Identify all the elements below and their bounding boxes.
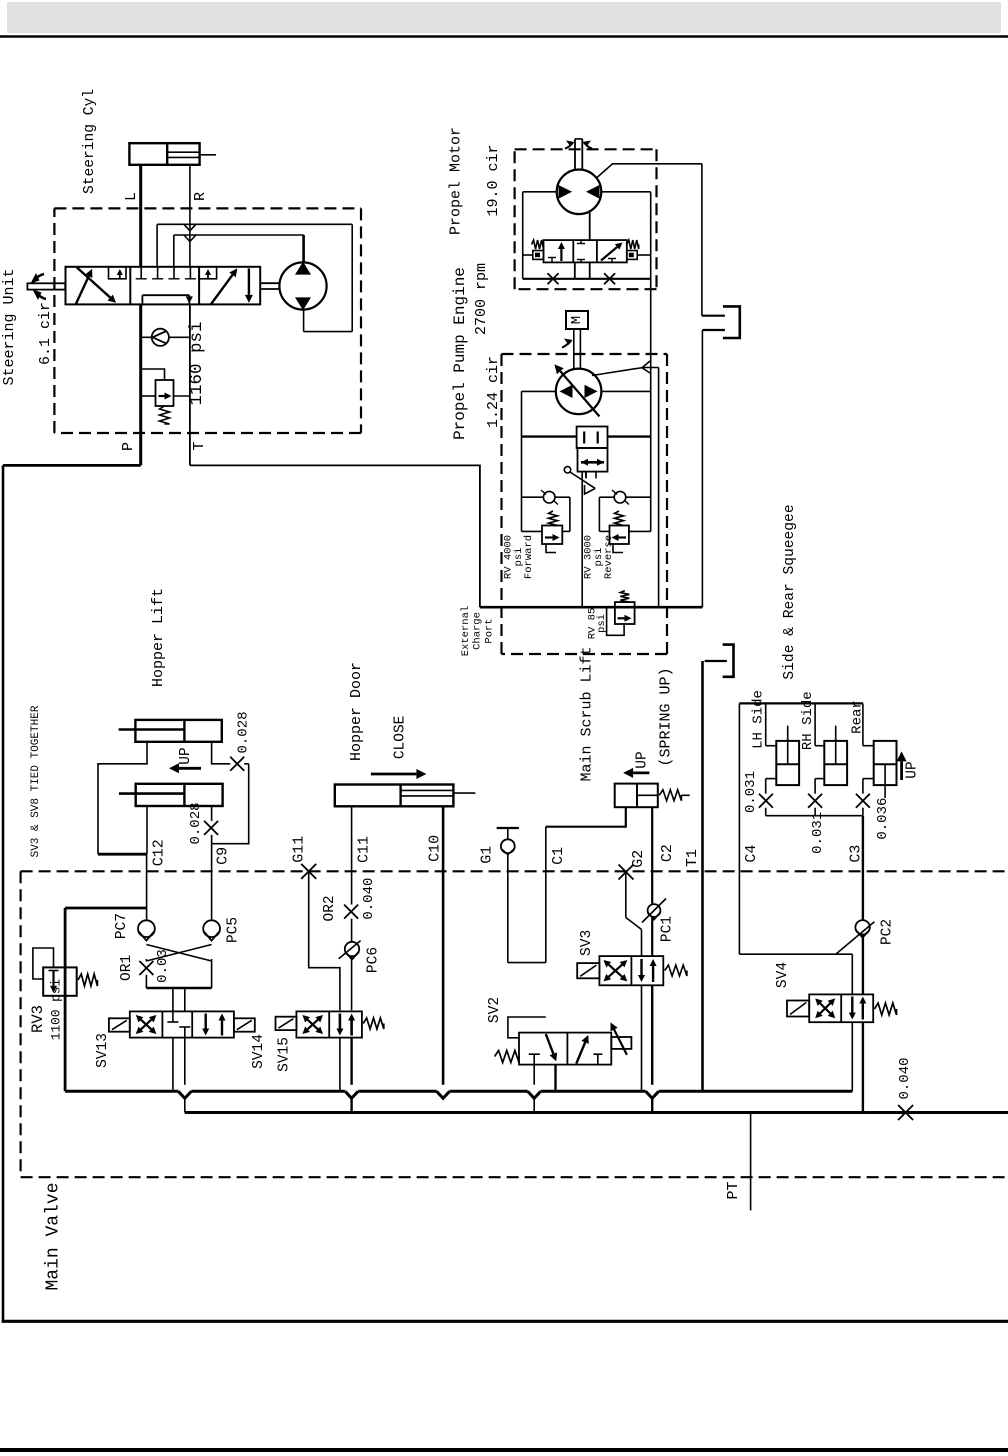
page bottom rule bbox=[0, 1448, 1008, 1452]
svg-text:M: M bbox=[569, 316, 585, 324]
svg-text:Port: Port bbox=[484, 618, 496, 643]
svg-text:C9: C9 bbox=[215, 847, 232, 865]
svg-text:L: L bbox=[123, 192, 140, 201]
svg-text:Propel Pump Engine: Propel Pump Engine bbox=[451, 267, 469, 440]
svg-text:T: T bbox=[191, 441, 208, 450]
wire C2 through PC1 bbox=[651, 917, 653, 956]
valve SV4 bbox=[809, 994, 873, 1022]
svg-text:PC1: PC1 bbox=[660, 916, 676, 942]
wire T1 bbox=[701, 661, 704, 1091]
wire hopper lower right port bbox=[211, 806, 213, 821]
svg-text:Main Valve: Main Valve bbox=[44, 1182, 64, 1290]
wire motor loop bottom bbox=[523, 278, 651, 280]
page header bar bbox=[7, 2, 1001, 33]
header rule bbox=[0, 35, 1008, 38]
wire T below valve bbox=[189, 304, 191, 465]
svg-text:C1: C1 bbox=[550, 847, 567, 865]
check valve PC7 bbox=[146, 919, 148, 921]
coupler motor case bbox=[702, 315, 725, 317]
wire P to boundary bbox=[3, 464, 141, 467]
svg-text:PC7: PC7 bbox=[114, 913, 130, 939]
svg-text:C12: C12 bbox=[151, 839, 168, 866]
wire C4 rail bbox=[739, 702, 863, 704]
check valve steering bbox=[141, 336, 152, 338]
propel pump dashed box bbox=[502, 353, 668, 355]
svg-text:Steering Cyl: Steering Cyl bbox=[82, 89, 98, 194]
steering wheel shaft bbox=[27, 283, 65, 289]
wire hopper left loop bbox=[98, 742, 147, 854]
plug X left bbox=[548, 273, 559, 284]
wire coupler to charge line bbox=[701, 330, 703, 607]
system boundary bottom edge bbox=[2, 1320, 1008, 1323]
spring SV4 bbox=[874, 1003, 896, 1015]
main valve dashed box bbox=[21, 870, 1008, 872]
wire C2 bbox=[651, 807, 653, 903]
svg-text:1.24 cir: 1.24 cir bbox=[485, 356, 502, 428]
wire motor case drain bbox=[597, 164, 702, 178]
wire C10 bbox=[442, 806, 445, 1085]
wire motor valve ports bbox=[574, 262, 576, 278]
plug X right bbox=[604, 273, 615, 284]
wire SV4 left port down bbox=[851, 1022, 853, 1091]
wire R line bbox=[189, 165, 191, 267]
steering cylinder bbox=[129, 143, 199, 165]
wire G1 line bbox=[507, 853, 509, 963]
valve SV13 SV14 bbox=[130, 1011, 234, 1037]
svg-text:C3: C3 bbox=[847, 845, 864, 863]
wire gerotor top loop bbox=[302, 235, 305, 262]
spring SV2 bbox=[495, 1051, 520, 1063]
svg-text:SV14: SV14 bbox=[251, 1034, 267, 1069]
svg-text:C2: C2 bbox=[659, 844, 676, 862]
wire pump right column bbox=[650, 391, 652, 531]
relief valve RV forward bbox=[542, 526, 562, 545]
coupler T1 bbox=[723, 645, 734, 677]
wire C9 bbox=[211, 844, 213, 921]
wire below SV2 bbox=[533, 1065, 535, 1085]
wire C11 bbox=[351, 806, 353, 904]
wire hopper lower left port bbox=[146, 806, 148, 854]
svg-text:PT: PT bbox=[725, 1181, 742, 1199]
wire pump center column bbox=[581, 472, 583, 608]
relief valve 1160 psi bbox=[156, 380, 174, 406]
svg-text:C11: C11 bbox=[355, 836, 372, 863]
gauge port G11 bbox=[301, 864, 316, 879]
svg-text:0.031: 0.031 bbox=[743, 771, 759, 813]
svg-text:OR1: OR1 bbox=[119, 955, 135, 981]
gauge port G2 bbox=[619, 865, 634, 880]
wire motor loop left bbox=[523, 191, 557, 193]
valve right section bbox=[199, 267, 217, 279]
solenoid SV15 bbox=[276, 1017, 297, 1030]
wire below SV13 bbox=[172, 1038, 174, 1092]
svg-text:19.0 cir: 19.0 cir bbox=[485, 144, 502, 216]
pump shaft bbox=[573, 329, 575, 370]
pump variable arrow bbox=[560, 371, 599, 416]
svg-text:Reverse: Reverse bbox=[603, 535, 615, 579]
svg-text:Hopper Door: Hopper Door bbox=[348, 662, 365, 761]
solenoid SV3 bbox=[577, 963, 599, 978]
wire pump ports bbox=[522, 390, 556, 392]
propel pump bbox=[556, 369, 602, 415]
svg-text:R: R bbox=[192, 192, 209, 201]
svg-text:0.03: 0.03 bbox=[155, 949, 171, 983]
svg-text:Hopper Lift: Hopper Lift bbox=[150, 588, 167, 687]
svg-text:G1: G1 bbox=[479, 846, 496, 864]
wire valve to gerotor bbox=[260, 282, 279, 284]
wire rear orifice branch bbox=[862, 779, 864, 794]
wire C1 jog to SV2 bbox=[508, 1017, 546, 1038]
squeegee cylinder RH bbox=[814, 703, 816, 745]
valve SV3 bbox=[599, 956, 663, 985]
wire PT bbox=[750, 1113, 752, 1211]
svg-text:LH Side: LH Side bbox=[751, 690, 767, 749]
charge check left bbox=[522, 496, 544, 498]
svg-text:Propel Motor: Propel Motor bbox=[448, 127, 465, 235]
propel motor dashed box bbox=[515, 148, 657, 150]
orifice 0.028 lower bbox=[204, 821, 218, 835]
tank manifold upper bbox=[65, 1090, 178, 1093]
valve SV15 bbox=[296, 1011, 362, 1037]
wire L line bbox=[139, 165, 142, 267]
check valve PC1 bbox=[648, 904, 661, 917]
svg-text:RV3: RV3 bbox=[29, 1005, 47, 1033]
svg-text:6.1 cir: 6.1 cir bbox=[37, 302, 54, 365]
orifice 0.028 upper bbox=[230, 757, 244, 771]
wire pump left column bbox=[521, 391, 523, 531]
svg-text:UP: UP bbox=[635, 751, 651, 768]
svg-text:C4: C4 bbox=[743, 845, 760, 863]
valve SV2 bbox=[519, 1033, 611, 1065]
wire hopper right loop bbox=[212, 742, 231, 764]
relief valve RV 85 bbox=[615, 602, 635, 624]
wire RH orifice branch bbox=[814, 779, 816, 794]
wire motor right column bbox=[650, 279, 652, 392]
arrow UP scrub bbox=[633, 772, 649, 775]
orifice 0.031 RH bbox=[808, 794, 822, 808]
svg-text:SV4: SV4 bbox=[775, 962, 791, 988]
wire G11 branch bbox=[309, 871, 340, 1010]
svg-text:SV15: SV15 bbox=[277, 1037, 293, 1072]
svg-text:0.036: 0.036 bbox=[875, 798, 891, 840]
steering control valve body bbox=[66, 267, 261, 305]
svg-text:SV3 & SV8 TIED TOGETHER: SV3 & SV8 TIED TOGETHER bbox=[30, 705, 42, 857]
svg-text:psi: psi bbox=[596, 614, 608, 633]
svg-text:1100 psi: 1100 psi bbox=[49, 978, 64, 1040]
solenoid SV4 bbox=[787, 1001, 809, 1017]
propel motor bbox=[557, 170, 602, 215]
wire G2 pilot bbox=[625, 872, 627, 918]
svg-text:Steering Unit: Steering Unit bbox=[1, 268, 18, 385]
svg-text:2700 rpm: 2700 rpm bbox=[473, 263, 490, 335]
svg-text:T1: T1 bbox=[684, 849, 701, 867]
wire C3 bbox=[862, 816, 864, 921]
arrow UP hopper bbox=[179, 767, 201, 770]
wire motor case to coupler bbox=[701, 164, 703, 316]
wire C1 bbox=[546, 807, 626, 827]
orifice 0.040 manifold bbox=[898, 1105, 913, 1120]
scrub lift actuator bbox=[615, 784, 658, 808]
wire LH orifice branch bbox=[765, 779, 767, 794]
engine box M bbox=[566, 311, 588, 329]
arrow CLOSE bbox=[371, 773, 417, 776]
valve centre section bbox=[140, 267, 142, 279]
wire C4 pilot to SV4 bbox=[739, 953, 852, 955]
wire P below valve bbox=[139, 304, 142, 465]
motor valve springs bbox=[532, 240, 544, 249]
squeegee cylinder Rear bbox=[862, 703, 864, 745]
wire squeegee return rail bbox=[766, 815, 863, 817]
motor shaft bbox=[574, 139, 576, 171]
svg-text:SV2: SV2 bbox=[487, 997, 503, 1023]
charge check right bbox=[614, 491, 626, 503]
svg-text:(SPRING UP): (SPRING UP) bbox=[658, 667, 675, 766]
check valve PC6 bbox=[345, 942, 359, 956]
svg-text:0.028: 0.028 bbox=[188, 802, 204, 844]
valve left section arrows bbox=[76, 276, 89, 304]
hopper lift cylinder lower bbox=[136, 784, 223, 806]
svg-text:C10: C10 bbox=[427, 835, 444, 862]
wire C3 through SV4 bbox=[862, 935, 864, 995]
svg-text:Charge: Charge bbox=[472, 612, 484, 650]
svg-text:Main Scrub Lift: Main Scrub Lift bbox=[579, 646, 596, 781]
svg-text:0.031: 0.031 bbox=[810, 812, 826, 854]
system boundary left edge bbox=[2, 465, 5, 1322]
wire through servo bbox=[522, 435, 577, 437]
wire pump case drain bbox=[592, 368, 659, 376]
svg-text:0.040: 0.040 bbox=[361, 878, 377, 920]
steering unit dashed box bbox=[54, 207, 361, 209]
wire PC cross bbox=[146, 945, 211, 962]
solenoid SV13 bbox=[109, 1018, 130, 1031]
check valve PC2 bbox=[855, 920, 869, 934]
check valve PC5 bbox=[211, 919, 213, 921]
wire below SV3 bbox=[641, 985, 643, 1091]
wire T to charge line bbox=[190, 465, 480, 607]
svg-text:Forward: Forward bbox=[523, 535, 535, 579]
svg-text:PC6: PC6 bbox=[366, 947, 382, 973]
svg-text:SV13: SV13 bbox=[95, 1033, 111, 1068]
svg-text:CLOSE: CLOSE bbox=[393, 716, 409, 760]
svg-text:RH Side: RH Side bbox=[800, 691, 816, 750]
wire motor loop right bbox=[601, 191, 650, 193]
svg-text:Side & Rear Squeegee: Side & Rear Squeegee bbox=[782, 504, 798, 679]
svg-text:UP: UP bbox=[178, 747, 194, 764]
svg-text:PC2: PC2 bbox=[879, 919, 895, 945]
svg-text:0.040: 0.040 bbox=[897, 1057, 913, 1099]
servo cylinder bbox=[577, 427, 608, 449]
orifice 0.031 LH bbox=[759, 794, 773, 808]
wire PC1 pilot to SV3 bbox=[641, 930, 643, 957]
motor valve pilot caps bbox=[533, 251, 544, 260]
hopper lift cylinder upper bbox=[135, 720, 221, 742]
gerotor metering unit bbox=[279, 262, 326, 309]
tank manifold lower bbox=[185, 1111, 1008, 1114]
spring SV15 bbox=[363, 1018, 384, 1029]
orifice OR2 bbox=[344, 905, 358, 919]
svg-text:External: External bbox=[460, 606, 472, 656]
arrow UP rear bbox=[900, 761, 903, 780]
servo stubs bbox=[585, 472, 587, 479]
wire gerotor bottom loop bbox=[303, 310, 305, 331]
svg-text:OR2: OR2 bbox=[322, 895, 338, 921]
hopper door cylinder bbox=[335, 785, 454, 807]
squeegee cylinder LH bbox=[765, 703, 767, 745]
solenoid SV2 proportional bbox=[611, 1037, 631, 1049]
motor shuttle valve bbox=[544, 240, 627, 262]
wire C12 bbox=[146, 854, 148, 920]
solenoid SV14 bbox=[234, 1018, 255, 1031]
servo lever bbox=[564, 467, 570, 473]
svg-text:G11: G11 bbox=[291, 836, 308, 863]
svg-text:PC5: PC5 bbox=[225, 917, 241, 943]
relief valve RV3 bbox=[43, 967, 76, 995]
svg-text:0.028: 0.028 bbox=[236, 711, 252, 753]
gauge port G1 bbox=[497, 827, 519, 829]
svg-text:SV3: SV3 bbox=[579, 930, 595, 956]
wire PC6 to SV15 bbox=[351, 957, 353, 1011]
wire PC junction bbox=[146, 987, 211, 990]
orifice OR1 bbox=[145, 960, 147, 962]
relief valve RV reverse bbox=[610, 526, 629, 545]
orifice 0.036 bbox=[856, 794, 870, 808]
wire hops on R line bbox=[184, 224, 196, 231]
svg-text:P: P bbox=[120, 442, 137, 451]
svg-text:G2: G2 bbox=[630, 850, 647, 868]
svg-text:UP: UP bbox=[905, 761, 921, 778]
spring SV3 bbox=[665, 965, 687, 976]
wire supply loop RV3 bbox=[65, 907, 147, 910]
wire charge line bbox=[480, 606, 703, 609]
wire below SV15 bbox=[339, 1038, 341, 1092]
